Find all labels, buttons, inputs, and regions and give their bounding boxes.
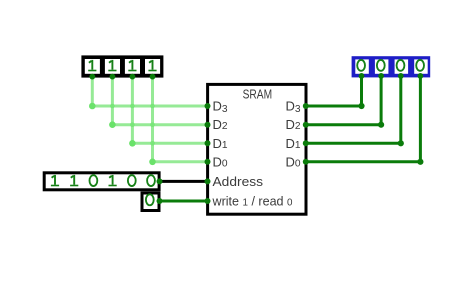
wire net D3 output (dark green, SRAM D3 to output bit3) [306, 77, 362, 106]
wire net D1 input [132, 78, 207, 144]
pin dot SRAM D0 left [205, 159, 211, 165]
value label input bit 3 = 1 [88, 60, 96, 71]
pin dot SRAM D0 right [303, 159, 309, 165]
wire net Address (black, address register to SRAM Address pin) [160, 180, 208, 183]
output register frame (4-bit data output, blue, value 0000) [352, 56, 431, 77]
wire net D0 input [153, 78, 208, 162]
value label address bit 0 = 0 [147, 175, 155, 186]
value label output bit 0 = 0 [416, 60, 424, 71]
value label address bit 2 = 1 [109, 175, 117, 186]
wire crossing dot at D1 row / bit0 column [150, 141, 155, 146]
pin dot output bit 2 [378, 73, 384, 79]
wire corner dot D1 output [398, 140, 404, 146]
value label output bit 1 = 0 [397, 60, 405, 71]
pin dot input bit 0 [150, 74, 156, 80]
pin dot output bit 1 [398, 73, 404, 79]
pin dot SRAM D2 left [205, 122, 211, 128]
SRAM chip U1 body [208, 84, 306, 214]
value label address bit 5 = 1 [51, 175, 59, 186]
input register frame (4-bit data input, value 1111) [81, 55, 163, 77]
pin dot SRAM Address [205, 178, 211, 184]
value label output bit 2 = 0 [377, 60, 385, 71]
wire corner dot D0 output [417, 159, 423, 165]
wire corner dot D1 input [129, 140, 136, 147]
pin dot output bit 3 [359, 73, 365, 79]
write/read mode input box (value 0) [142, 193, 159, 211]
pin dot input bit 1 [130, 74, 136, 80]
pin dot address register output [157, 178, 163, 184]
pin dot input bit 3 [89, 74, 95, 80]
wire net D0 output [306, 77, 421, 162]
pin dot output bit 0 [418, 73, 424, 79]
wire crossing dot at D2 row / bit1 column [130, 122, 135, 127]
wire corner dot D2 output [378, 122, 384, 128]
pin dot SRAM D3 right [303, 103, 309, 109]
pin dot SRAM write/read [205, 198, 211, 204]
wire crossing dot at D2 row / bit0 column [150, 122, 155, 127]
wire corner dot D3 output [358, 103, 364, 109]
wire net D2 input [112, 78, 207, 125]
value label address bit 4 = 1 [70, 175, 78, 186]
svg-text:SRAM: SRAM [243, 86, 273, 101]
wire crossing dot at D3 row / bit2 column [110, 104, 115, 109]
wire corner dot D3 input [89, 103, 96, 110]
wire crossing dot at D3 row / bit0 column [150, 104, 155, 109]
value label output bit 3 = 0 [357, 60, 365, 71]
pin dot input bit 2 [110, 74, 116, 80]
wire net D2 output [306, 77, 381, 124]
pin dot SRAM D1 left [205, 140, 211, 146]
wire corner dot D0 input [149, 159, 156, 166]
wire crossing dot at D3 row / bit1 column [130, 104, 135, 109]
wire net D1 output [306, 77, 401, 143]
value label address bit 1 = 0 [128, 175, 136, 186]
pin dot write/read box output [157, 198, 163, 204]
wire net D3 input (light green, from input bit3 to SRAM D3) [92, 78, 207, 107]
value label input bit 1 = 1 [128, 60, 136, 71]
value label input bit 2 = 1 [108, 60, 116, 71]
wire corner dot D2 input [109, 121, 116, 128]
svg-text:Address: Address [213, 174, 264, 189]
pin dot SRAM D2 right [303, 122, 309, 128]
svg-text:write 1 / read 0: write 1 / read 0 [212, 194, 293, 209]
value label address bit 3 = 0 [90, 175, 98, 186]
value label write/read bit = 0 [146, 194, 154, 205]
pin dot SRAM D1 right [303, 140, 309, 146]
wire net write/read (dark green, mode bit box to SRAM write pin) [160, 200, 208, 203]
pin dot SRAM D3 left [205, 103, 211, 109]
value label input bit 0 = 1 [148, 60, 156, 71]
address register box (6-bit address input) [44, 173, 159, 190]
